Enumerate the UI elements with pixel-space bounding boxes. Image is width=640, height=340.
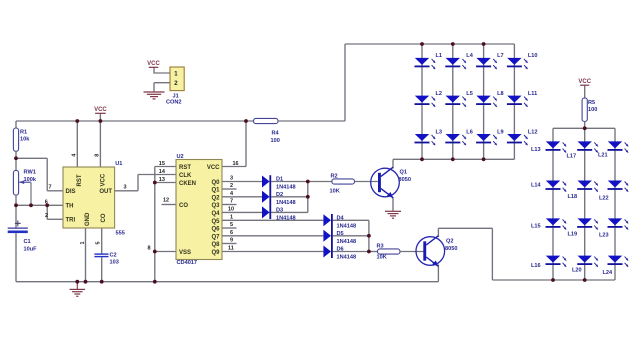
svg-text:L23: L23	[599, 233, 609, 239]
svg-text:Q1: Q1	[400, 170, 407, 176]
svg-text:U1: U1	[115, 161, 122, 167]
svg-text:RST: RST	[77, 174, 83, 186]
svg-text:L12: L12	[528, 129, 538, 135]
svg-text:L3: L3	[436, 129, 443, 135]
svg-text:103: 103	[110, 260, 119, 266]
svg-text:13: 13	[159, 177, 165, 183]
svg-text:10K: 10K	[377, 255, 387, 261]
svg-text:L16: L16	[531, 263, 541, 269]
svg-text:L1: L1	[436, 53, 443, 59]
svg-text:L21: L21	[598, 153, 608, 159]
svg-text:15: 15	[159, 161, 165, 167]
svg-text:L6: L6	[466, 129, 473, 135]
svg-text:VSS: VSS	[179, 250, 191, 256]
svg-text:Q1: Q1	[211, 188, 220, 194]
svg-text:VCC: VCC	[94, 107, 107, 113]
svg-text:L14: L14	[531, 183, 542, 189]
svg-text:11: 11	[228, 246, 234, 252]
svg-text:L7: L7	[497, 53, 504, 59]
svg-text:1N4148: 1N4148	[337, 255, 357, 261]
svg-text:TH: TH	[66, 203, 74, 209]
svg-text:L17: L17	[567, 154, 577, 160]
svg-text:L8: L8	[497, 91, 504, 97]
svg-text:L5: L5	[466, 91, 473, 97]
svg-text:L24: L24	[603, 270, 614, 276]
svg-text:R1: R1	[20, 129, 27, 135]
svg-text:Q8: Q8	[211, 242, 220, 248]
svg-text:555: 555	[116, 231, 125, 237]
svg-text:R4: R4	[272, 130, 280, 136]
svg-text:6: 6	[230, 230, 233, 236]
svg-text:Q3: Q3	[211, 203, 220, 209]
svg-text:R2: R2	[331, 174, 338, 180]
svg-text:L13: L13	[531, 147, 541, 153]
svg-text:10uF: 10uF	[24, 247, 38, 253]
svg-text:RW1: RW1	[24, 170, 36, 176]
svg-text:VCC: VCC	[207, 165, 220, 171]
svg-text:1N4148: 1N4148	[337, 223, 357, 229]
svg-text:100k: 100k	[24, 177, 37, 183]
svg-text:1N4148: 1N4148	[276, 185, 296, 191]
svg-text:Q5: Q5	[211, 219, 220, 225]
svg-text:7: 7	[49, 184, 52, 190]
svg-text:Q0: Q0	[211, 180, 220, 186]
svg-text:2: 2	[230, 183, 233, 189]
svg-text:2: 2	[45, 213, 48, 219]
svg-text:Q9: Q9	[211, 250, 220, 256]
svg-text:7: 7	[230, 199, 233, 205]
svg-text:L11: L11	[528, 91, 537, 97]
svg-text:Q2: Q2	[211, 195, 220, 201]
svg-text:OUT: OUT	[99, 189, 112, 195]
svg-text:L20: L20	[572, 268, 582, 274]
svg-text:TRI: TRI	[66, 218, 76, 224]
svg-text:C1: C1	[24, 239, 31, 245]
svg-text:1N4148: 1N4148	[276, 215, 296, 221]
svg-text:5: 5	[96, 241, 102, 244]
svg-text:VCC: VCC	[147, 61, 160, 67]
svg-text:L9: L9	[497, 129, 504, 135]
svg-text:10K: 10K	[330, 189, 340, 195]
svg-text:R5: R5	[588, 100, 595, 106]
svg-text:L18: L18	[568, 194, 578, 200]
svg-text:Q7: Q7	[211, 234, 220, 240]
svg-text:D4: D4	[337, 215, 345, 221]
svg-text:12: 12	[163, 198, 169, 204]
svg-text:8: 8	[94, 154, 100, 157]
svg-text:16: 16	[233, 161, 239, 167]
svg-text:CO: CO	[179, 203, 188, 209]
svg-text:9: 9	[230, 238, 233, 244]
svg-text:L10: L10	[528, 53, 538, 59]
svg-text:100: 100	[271, 138, 280, 144]
svg-text:CLK: CLK	[179, 173, 192, 179]
svg-text:8: 8	[148, 246, 151, 252]
svg-text:6: 6	[45, 199, 48, 205]
svg-text:RST: RST	[179, 165, 191, 171]
svg-text:CKEN: CKEN	[179, 181, 196, 187]
svg-text:3: 3	[230, 176, 233, 182]
svg-text:8050: 8050	[399, 177, 411, 183]
svg-text:D1: D1	[276, 177, 283, 183]
svg-text:1N4148: 1N4148	[276, 200, 296, 206]
svg-text:Q4: Q4	[211, 211, 220, 217]
svg-text:1N4148: 1N4148	[337, 239, 357, 245]
svg-text:L4: L4	[466, 53, 473, 59]
svg-text:100: 100	[588, 107, 597, 113]
svg-text:D5: D5	[337, 231, 344, 237]
svg-text:3: 3	[124, 185, 127, 191]
svg-text:D2: D2	[276, 192, 283, 198]
svg-text:U2: U2	[177, 154, 184, 160]
svg-text:10k: 10k	[20, 137, 30, 143]
svg-text:VCC: VCC	[100, 173, 106, 186]
svg-text:CD4017: CD4017	[177, 260, 198, 266]
svg-text:L19: L19	[568, 231, 578, 237]
svg-text:1: 1	[230, 215, 233, 221]
svg-text:L22: L22	[599, 195, 609, 201]
svg-text:L15: L15	[531, 224, 541, 230]
svg-text:C2: C2	[110, 253, 117, 259]
svg-text:1: 1	[80, 241, 86, 244]
svg-text:L2: L2	[436, 91, 443, 97]
svg-text:5: 5	[230, 222, 233, 228]
svg-text:DIS: DIS	[66, 189, 76, 195]
svg-text:14: 14	[159, 169, 166, 175]
svg-text:D3: D3	[276, 207, 283, 213]
svg-text:CO: CO	[101, 213, 107, 222]
svg-text:CON2: CON2	[166, 99, 182, 105]
svg-text:8050: 8050	[445, 246, 457, 252]
svg-text:Q2: Q2	[446, 239, 453, 245]
svg-text:VCC: VCC	[578, 79, 591, 85]
svg-text:10: 10	[228, 207, 234, 213]
svg-text:GND: GND	[85, 212, 91, 226]
svg-text:Q6: Q6	[211, 227, 220, 233]
svg-text:R3: R3	[377, 243, 384, 249]
svg-text:D6: D6	[337, 247, 344, 253]
